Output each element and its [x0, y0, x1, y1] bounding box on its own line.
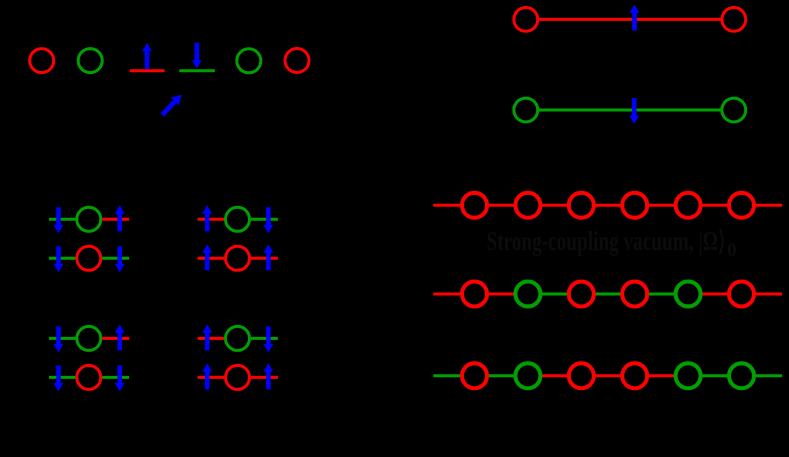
sec1 diagram A right bond [102, 218, 129, 221]
sec1 diagram A right up-spin arrow [115, 205, 125, 231]
red dimer right circle [722, 8, 746, 32]
sec2 diagram A left bond [49, 337, 76, 340]
chain3 bond 1-2 [486, 374, 516, 377]
sec2 diagram A left down-spin arrow [54, 326, 64, 352]
chain3 circle 6 [729, 363, 754, 388]
legend green bar [179, 69, 215, 72]
sec2 diagram C right bond [102, 376, 129, 379]
chain3 trail bond [753, 374, 782, 377]
chain1 bond 3-4 [593, 204, 623, 207]
chain2 bond 1-2 [486, 293, 516, 296]
chain1 trail bond [753, 204, 782, 207]
chain2 circle 3 [569, 282, 594, 307]
sec1 diagram C right down-spin arrow [115, 246, 125, 272]
sec1 diagram D left up-spin arrow [202, 244, 212, 270]
legend red circle (conduction site) [30, 49, 54, 73]
sec2 diagram D right bond [251, 376, 278, 379]
chain2 bond 3-4 [593, 293, 623, 296]
chain1 bond 1-2 [486, 204, 516, 207]
sec1 diagram D circle [226, 246, 250, 270]
sec2 diagram A right bond [102, 337, 129, 340]
chain2 bond 2-3 [539, 293, 569, 296]
chain1 circle 5 [676, 193, 701, 218]
sec2 diagram D left up-spin arrow [202, 363, 212, 389]
red dimer blue up-spin arrow [630, 5, 640, 31]
sec1 diagram D right bond [251, 257, 278, 260]
legend red circle [285, 49, 309, 73]
chain1 bond 2-3 [539, 204, 569, 207]
chain1 circle 2 [515, 193, 540, 218]
chain1 circle 6 [729, 193, 754, 218]
chain2 circle 6 [729, 282, 754, 307]
sec1 diagram C left bond [49, 257, 76, 260]
sec1 diagram B right bond [251, 218, 278, 221]
chain2 circle 2 [515, 282, 540, 307]
svg-text:Strong-coupling vacuum, |Ω⟩: Strong-coupling vacuum, |Ω⟩ [487, 226, 726, 256]
chain3 circle 4 [622, 363, 647, 388]
chain3 circle 3 [569, 363, 594, 388]
sec2 diagram D left bond [198, 376, 225, 379]
legend blue down-spin arrow [192, 43, 202, 69]
red dimer bond [539, 18, 721, 21]
chain1 bond 5-6 [700, 204, 730, 207]
sec2 diagram B left bond [198, 337, 225, 340]
legend green circle [237, 49, 261, 73]
sec2 diagram A right up-spin arrow [115, 324, 125, 350]
sec2 diagram B right down-spin arrow [264, 326, 274, 352]
sec2 diagram C right down-spin arrow [115, 365, 125, 391]
sec1 diagram B circle [226, 207, 250, 231]
legend blue up-spin arrow [142, 43, 152, 69]
sec2 diagram B circle [226, 326, 250, 350]
chain3 circle 2 [515, 363, 540, 388]
sec2 diagram D right up-spin arrow [264, 363, 274, 389]
chain1 circle 3 [569, 193, 594, 218]
green dimer left circle [514, 98, 538, 122]
chain1 lead bond [433, 204, 463, 207]
chain2 trail bond [753, 293, 782, 296]
chain2 lead bond [433, 293, 463, 296]
sec2 diagram D circle [226, 365, 250, 389]
sec1 diagram C left down-spin arrow [54, 246, 64, 272]
red dimer left circle [514, 8, 538, 32]
sec2 diagram A circle [77, 326, 101, 350]
legend red bar [130, 69, 165, 72]
chain3 circle 5 [676, 363, 701, 388]
chain2 bond 4-5 [646, 293, 676, 296]
sec2 diagram C circle [77, 365, 101, 389]
sec1 diagram D left bond [198, 257, 225, 260]
chain2 circle 4 [622, 282, 647, 307]
sec1 diagram A left down-spin arrow [54, 207, 64, 233]
sec1 diagram A left bond [49, 218, 76, 221]
chain2 circle 1 [462, 282, 487, 307]
green dimer blue down-spin arrow [629, 98, 639, 124]
sec1 diagram A circle [77, 207, 101, 231]
legend green circle (conduction site) [78, 49, 102, 73]
sec2 diagram C left bond [49, 376, 76, 379]
sec1 diagram D right up-spin arrow [264, 244, 274, 270]
sec1 diagram C right bond [102, 257, 129, 260]
sec1 diagram B right down-spin arrow [264, 207, 274, 233]
sec2 diagram C left down-spin arrow [54, 365, 64, 391]
chain3 lead bond [433, 374, 463, 377]
chain1 bond 4-5 [646, 204, 676, 207]
green dimer bond [539, 109, 721, 112]
chain3 circle 1 [462, 363, 487, 388]
chain3 bond 5-6 [700, 374, 730, 377]
diagonal blue spin arrow [161, 95, 182, 117]
svg-text:0: 0 [727, 240, 737, 261]
chain3 bond 4-5 [646, 374, 676, 377]
chain3 bond 2-3 [539, 374, 569, 377]
chain2 circle 5 [676, 282, 701, 307]
sec1 diagram C circle [77, 246, 101, 270]
chain3 bond 3-4 [593, 374, 623, 377]
sec1 diagram B left bond [198, 218, 225, 221]
green dimer right circle [722, 98, 746, 122]
chain2 bond 5-6 [700, 293, 730, 296]
sec1 diagram B left up-spin arrow [202, 205, 212, 231]
chain1 circle 1 [462, 193, 487, 218]
chain1 circle 4 [622, 193, 647, 218]
sec2 diagram B left up-spin arrow [202, 324, 212, 350]
sec2 diagram B right bond [251, 337, 278, 340]
